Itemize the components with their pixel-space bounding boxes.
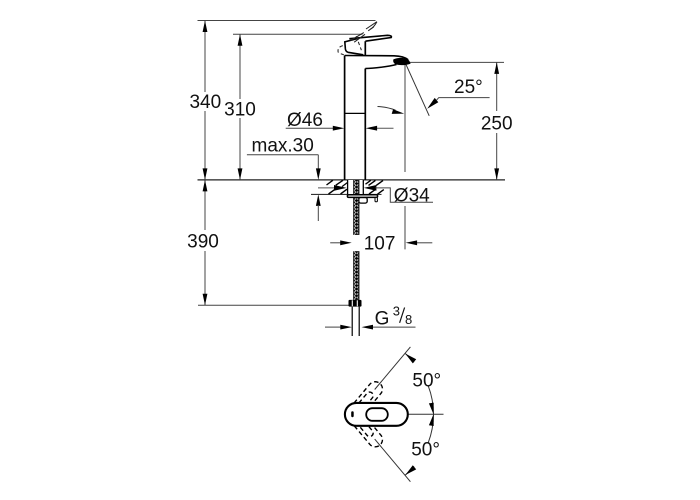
handle top view slot [366,408,388,421]
svg-text:340: 340 [189,92,221,113]
svg-text:50°: 50° [411,440,440,461]
deck surface line [198,179,506,181]
dimension Ø34 leader [318,187,336,189]
angle arc upper near centerline [428,386,433,415]
spout nose aerator [393,58,410,65]
leader arrow to vertical reference [378,107,396,111]
braided hose upper segment [353,180,359,235]
svg-text:Ø46: Ø46 [287,110,323,131]
dimension G 3/8 [325,326,341,328]
extension line spout tip 250 [410,61,504,63]
ghost lever back arc [338,46,343,53]
swivel ray lower [375,439,411,482]
ghost handle upper [349,379,385,418]
svg-text:310: 310 [224,100,256,121]
deck hatch left [327,180,333,185]
washer end tab [375,197,377,201]
lever base [345,39,364,55]
ghost lever slash b [354,34,365,42]
ghost lever tip hook [370,22,377,30]
deck hatch right [366,180,371,184]
25 degree spout axis ray [405,63,429,116]
ghost lever back dash [341,54,344,55]
centerline [408,413,444,415]
spout underside [365,65,396,69]
ghost lever raised edge [356,36,361,50]
dimension line 310 [239,34,241,99]
svg-text:250: 250 [481,113,513,134]
extension line bottom 390 [198,304,349,306]
dimension max.30 leader [247,154,318,156]
dimension 107 [330,242,341,244]
faucet body column [344,56,346,180]
svg-text:390: 390 [187,232,219,253]
deck underside line right [364,193,382,195]
ghost handle lower [349,411,385,450]
svg-text:107: 107 [364,233,396,254]
vertical reference line from spout tip [404,63,406,172]
25 degree leader arrow [427,98,438,109]
spout top edge [345,56,409,60]
extension line top 310 [233,33,363,35]
braided hose lower segment [353,251,359,300]
dimension Ø46 [286,127,334,129]
ghost lever slash e [368,27,374,31]
lever handle [349,35,391,41]
angle arc lower near centerline [428,414,433,443]
swivel ray upper [375,347,411,390]
lever neck [364,41,366,55]
dimension line 390 [204,180,206,230]
dimension line 340 [204,21,206,93]
svg-text:8: 8 [405,312,412,327]
handle top view body [345,403,408,426]
deck underside line left [311,193,347,195]
svg-text:25°: 25° [454,77,483,98]
angle arc upper near ray [405,353,414,362]
ghost lever slash a [351,33,364,41]
svg-text:G: G [375,308,390,329]
ghost lever slash c [366,22,377,29]
angle arc lower near ray [405,466,414,475]
svg-text:50°: 50° [412,371,441,392]
handle top view tick [351,411,354,417]
svg-text:max.30: max.30 [252,136,314,157]
shank through deck [348,180,364,194]
washer under deck [347,195,377,198]
mounting stud block [359,198,367,204]
max.30 lower witness arrow [316,194,321,206]
svg-text:3: 3 [393,304,400,319]
extension line top 340 [198,20,376,22]
dimension line 250 [496,62,498,111]
svg-text:Ø34: Ø34 [394,185,430,206]
hose nut [349,300,362,307]
body seam [345,112,366,114]
connection tube G3/8 [351,307,353,336]
